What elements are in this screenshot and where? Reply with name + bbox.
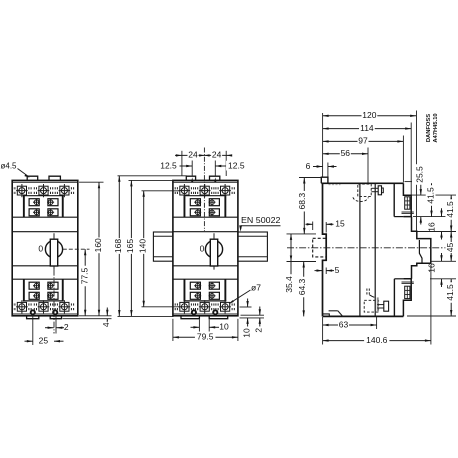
svg-text:35.4: 35.4: [284, 276, 294, 293]
svg-text:4: 4: [101, 322, 111, 327]
svg-text:68.3: 68.3: [297, 193, 307, 210]
svg-text:140: 140: [137, 239, 147, 253]
svg-text:12.5: 12.5: [228, 160, 245, 170]
svg-text:16: 16: [426, 263, 436, 273]
svg-text:A47H45.10: A47H45.10: [433, 113, 439, 142]
svg-text:15: 15: [335, 219, 345, 229]
svg-text:77.5: 77.5: [79, 267, 89, 284]
svg-text:41.5: 41.5: [445, 201, 455, 218]
svg-text:24: 24: [212, 149, 222, 159]
svg-text:0: 0: [38, 244, 43, 254]
svg-text:2: 2: [64, 322, 69, 332]
svg-text:ø7: ø7: [251, 282, 261, 292]
svg-text:79.5: 79.5: [197, 332, 214, 342]
svg-text:45: 45: [445, 243, 455, 253]
svg-text:16: 16: [426, 222, 436, 232]
svg-text:168: 168: [113, 239, 123, 253]
svg-text:EN 50022: EN 50022: [241, 215, 281, 225]
svg-text:97: 97: [358, 136, 368, 146]
svg-text:DANFOSS: DANFOSS: [426, 114, 432, 142]
svg-text:165: 165: [125, 239, 135, 253]
svg-text:140.6: 140.6: [366, 335, 388, 345]
svg-text:ø4.5: ø4.5: [0, 162, 17, 171]
svg-text:5: 5: [335, 265, 340, 275]
svg-text:10: 10: [219, 322, 229, 332]
svg-text:25.5: 25.5: [414, 166, 424, 183]
svg-text:10: 10: [241, 328, 251, 338]
svg-text:114: 114: [360, 123, 374, 133]
svg-text:64.3: 64.3: [297, 278, 307, 295]
svg-text:41.5: 41.5: [445, 284, 455, 301]
svg-text:160: 160: [93, 238, 103, 252]
svg-text:63: 63: [339, 319, 349, 329]
svg-text:6: 6: [306, 161, 311, 171]
svg-text:120: 120: [362, 110, 376, 120]
svg-text:24: 24: [188, 149, 198, 159]
svg-text:25: 25: [39, 336, 49, 346]
svg-text:12.5: 12.5: [160, 160, 177, 170]
svg-text:56: 56: [341, 148, 351, 158]
svg-text:2: 2: [254, 328, 264, 333]
svg-text:41.5: 41.5: [425, 187, 435, 204]
svg-text:0: 0: [200, 244, 205, 254]
